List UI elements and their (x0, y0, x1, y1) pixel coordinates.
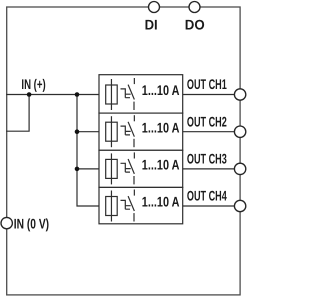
svg-text:IN (+): IN (+) (21, 76, 45, 92)
node bus tap CH1 (75, 92, 80, 97)
enclosure border (7, 7, 240, 295)
switch S3 bottom terminal (133, 176, 135, 184)
channel block CH3 outline (99, 150, 183, 187)
svg-text:OUT CH2: OUT CH2 (187, 113, 227, 129)
channel block CH1 outline (99, 75, 183, 113)
wire distribution bus (77, 95, 99, 207)
switch S3 blade (128, 159, 134, 174)
wire OUT CH2 (183, 131, 235, 133)
svg-text:DI: DI (145, 17, 158, 33)
fuse F1 body (106, 85, 118, 104)
wire IN (+) horizontal feed (6, 94, 99, 96)
switch S4 actuator link (121, 200, 131, 209)
svg-text:1...10 A: 1...10 A (142, 82, 180, 98)
fuse F2 element line (110, 116, 112, 147)
terminal IN 0V (1, 217, 12, 228)
terminal DO (189, 2, 200, 13)
terminal OUT CH4 (234, 200, 245, 211)
switch S1 blade (128, 85, 134, 100)
channel block CH2 outline (99, 113, 183, 150)
terminal OUT CH2 (234, 126, 245, 137)
fuse F3 body (106, 159, 118, 178)
switch S3 top terminal (133, 152, 135, 158)
node bus tap CH2 (75, 129, 80, 134)
svg-text:OUT CH3: OUT CH3 (187, 151, 227, 167)
switch S3 actuator link (121, 163, 131, 172)
svg-text:OUT CH1: OUT CH1 (187, 76, 227, 92)
wire OUT CH1 (183, 94, 235, 96)
switch S4 bottom terminal (133, 213, 135, 221)
switch S1 top terminal (133, 78, 135, 84)
switch S2 actuator link (121, 126, 131, 135)
switch S1 bottom terminal (133, 102, 135, 110)
svg-text:1...10 A: 1...10 A (142, 157, 180, 173)
switch S1 actuator link (121, 89, 131, 98)
svg-text:1...10 A: 1...10 A (142, 194, 180, 210)
switch S2 blade (128, 122, 134, 137)
svg-text:IN (0 V): IN (0 V) (14, 216, 49, 232)
wire left loop to 0V rail (6, 95, 29, 132)
svg-text:1...10 A: 1...10 A (142, 119, 180, 135)
fuse F3 element line (110, 153, 112, 184)
wire OUT CH4 (183, 205, 235, 207)
fuse F4 body (106, 197, 118, 216)
wire OUT CH3 (183, 168, 235, 170)
terminal DI (149, 2, 160, 13)
wire branch CH2 (77, 131, 99, 133)
terminal OUT CH3 (234, 163, 245, 174)
switch S4 top terminal (133, 190, 135, 196)
node loop junction (27, 92, 32, 97)
node bus tap CH3 (75, 167, 80, 172)
fuse F2 body (106, 122, 118, 141)
fuse F4 element line (110, 191, 112, 222)
switch S2 top terminal (133, 115, 135, 121)
fuse F1 element line (110, 79, 112, 110)
switch S2 bottom terminal (133, 139, 135, 147)
svg-text:DO: DO (185, 17, 205, 33)
channel block CH4 outline (99, 187, 183, 223)
svg-text:OUT CH4: OUT CH4 (187, 188, 227, 204)
terminal OUT CH1 (234, 89, 245, 100)
switch S4 blade (128, 196, 134, 211)
wire branch CH3 (77, 168, 99, 170)
